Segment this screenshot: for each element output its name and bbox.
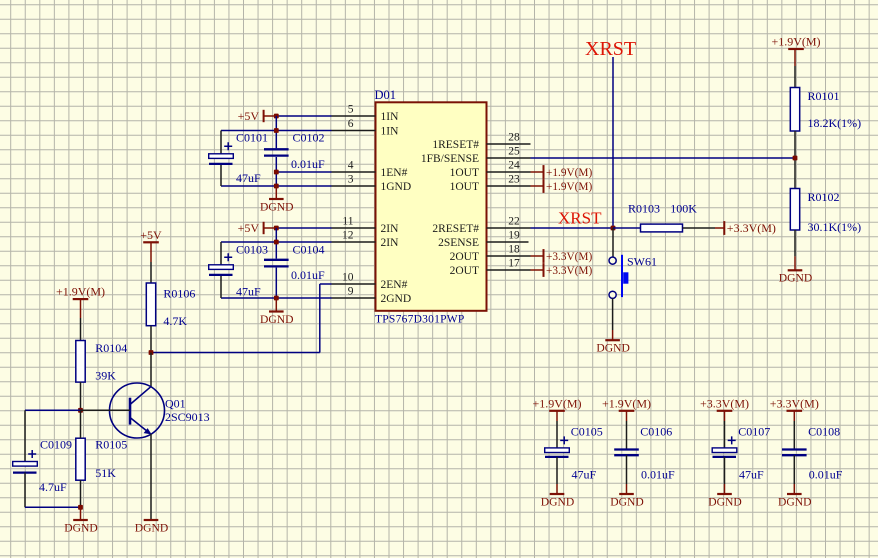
- svg-text:4.7K: 4.7K: [163, 314, 187, 328]
- svg-text:DGND: DGND: [541, 495, 575, 508]
- wire 1FB/SENSE to divider: [531, 157, 796, 159]
- junction bus2/top rail2: [274, 240, 279, 245]
- capacitor C0107 (polarized): [712, 436, 737, 457]
- switch SW61 bottom contact: [609, 291, 616, 298]
- junction at bus/+5V: [274, 114, 279, 119]
- svg-text:2EN#: 2EN#: [381, 279, 408, 291]
- junction bus/bottom rail: [274, 184, 279, 189]
- svg-text:DGND: DGND: [779, 272, 813, 285]
- wire collector node to Q01: [150, 353, 152, 387]
- ground DGND (group 2): [260, 298, 294, 326]
- svg-text:0.01uF: 0.01uF: [809, 467, 843, 481]
- power +3.3V(M) port (C0108): [770, 396, 819, 410]
- svg-text:XRST: XRST: [585, 38, 636, 60]
- wire R0103 to +3.3V: [683, 227, 725, 229]
- pin 11 (2IN) stub: [332, 227, 376, 229]
- svg-text:100K: 100K: [670, 201, 697, 215]
- svg-text:DGND: DGND: [64, 521, 98, 534]
- svg-text:3: 3: [348, 174, 354, 186]
- svg-text:2IN: 2IN: [381, 223, 400, 235]
- capacitor C0108: [782, 450, 807, 456]
- wire C0109 to bottom node: [25, 473, 81, 508]
- ground DGND (group 1): [260, 186, 294, 213]
- svg-text:C0103: C0103: [236, 243, 268, 257]
- svg-text:+5V: +5V: [140, 228, 162, 242]
- power +3.3V(M) port (R0103): [724, 221, 776, 235]
- svg-text:R0106: R0106: [163, 287, 195, 301]
- svg-text:39K: 39K: [95, 369, 116, 383]
- svg-text:1IN: 1IN: [381, 111, 400, 123]
- pin 18 (2OUT) stub: [487, 255, 531, 257]
- svg-text:47uF: 47uF: [739, 467, 764, 481]
- svg-text:TPS767D301PWP: TPS767D301PWP: [375, 314, 465, 326]
- svg-text:2SC9013: 2SC9013: [165, 410, 210, 424]
- svg-text:18: 18: [508, 244, 520, 256]
- pin 19 (2SENSE) stub: [487, 241, 529, 243]
- svg-text:DGND: DGND: [135, 521, 169, 534]
- wire base node to R0105: [80, 410, 82, 438]
- power +1.9V(M) port (divider top): [771, 35, 820, 49]
- capacitor C0105 (polarized): [545, 436, 570, 457]
- svg-text:2SENSE: 2SENSE: [438, 237, 479, 249]
- svg-text:25: 25: [508, 146, 520, 158]
- svg-text:+1.9V(M): +1.9V(M): [771, 35, 820, 49]
- svg-text:2GND: 2GND: [381, 293, 412, 305]
- svg-text:+1.9V(M): +1.9V(M): [546, 167, 592, 179]
- wire pin 17 to +3.3V(M): [531, 269, 544, 271]
- junction bus2/+5V: [274, 226, 279, 231]
- svg-text:1OUT: 1OUT: [450, 181, 479, 193]
- svg-text:D01: D01: [375, 88, 397, 102]
- resistor R0102: [790, 189, 799, 231]
- resistor R0103: [641, 224, 683, 232]
- ground DGND (emitter): [135, 520, 169, 534]
- junction bus/pin4 wire: [274, 170, 279, 175]
- svg-text:9: 9: [348, 286, 354, 298]
- ground DGND (divider): [779, 256, 813, 284]
- wire vertical bus 2 (C0104 leads): [275, 228, 277, 298]
- wire XRST node to R0103: [613, 227, 641, 229]
- wire R0101 to R0102: [794, 131, 796, 189]
- power +5V port (top group): [238, 109, 264, 123]
- svg-text:+1.9V(M): +1.9V(M): [546, 181, 592, 193]
- junction bus2/bottom rail2: [274, 296, 279, 301]
- svg-text:+1.9V(M): +1.9V(M): [56, 285, 105, 299]
- wire pin 4 to bus: [276, 171, 331, 173]
- power +3.3V(M) port (pin 18): [544, 249, 593, 263]
- svg-text:47uF: 47uF: [236, 171, 261, 185]
- junction collector node: [149, 350, 154, 355]
- pin 4 (1EN#) stub: [332, 171, 376, 173]
- svg-text:+3.3V(M): +3.3V(M): [700, 396, 749, 410]
- wire C0108 to ground: [793, 455, 795, 494]
- wire top rail to pin 6: [221, 130, 332, 132]
- wire R0105 to bottom node: [80, 480, 82, 507]
- svg-text:2OUT: 2OUT: [450, 265, 479, 277]
- svg-text:R0104: R0104: [95, 341, 127, 355]
- power +3.3V(M) port (C0107): [700, 396, 749, 410]
- wire R0104 to base node: [80, 382, 82, 410]
- svg-text:Q01: Q01: [165, 397, 186, 411]
- ground DGND (C0106): [610, 494, 644, 508]
- svg-text:19: 19: [508, 230, 520, 242]
- wire +3.3V(M) to C0107: [724, 411, 726, 448]
- svg-text:+3.3V(M): +3.3V(M): [727, 221, 776, 235]
- wire pin 24 to +1.9V(M): [531, 171, 544, 173]
- wire vertical bus (C0102 leads): [275, 116, 277, 186]
- junction bus/top rail: [274, 128, 279, 133]
- wire pin 23 to +1.9V(M): [531, 185, 544, 187]
- svg-text:28: 28: [508, 132, 520, 144]
- svg-text:10: 10: [342, 272, 354, 284]
- svg-text:6: 6: [348, 118, 354, 130]
- junction divider node: [793, 156, 798, 161]
- wire R0102 to ground: [794, 230, 796, 256]
- power +1.9V(M) port (pin 23): [544, 179, 593, 193]
- svg-text:1GND: 1GND: [381, 181, 412, 193]
- pin 5 (1IN) stub: [332, 115, 376, 117]
- svg-text:XRST: XRST: [558, 209, 602, 228]
- ground DGND (C0108): [778, 494, 812, 508]
- wire bus to pin 5: [276, 115, 331, 117]
- power +1.9V(M) port (R0104): [56, 285, 105, 299]
- power +5V port (second group): [238, 221, 264, 235]
- svg-text:C0109: C0109: [40, 438, 72, 452]
- svg-text:11: 11: [342, 216, 353, 228]
- wire top rail 2 to pin 12: [221, 241, 332, 243]
- svg-text:1RESET#: 1RESET#: [432, 139, 479, 151]
- svg-text:22: 22: [508, 216, 520, 228]
- svg-text:R0101: R0101: [808, 89, 840, 103]
- svg-text:DGND: DGND: [778, 495, 812, 508]
- svg-text:1FB/SENSE: 1FB/SENSE: [421, 153, 479, 165]
- pin 9 (2GND) stub: [332, 297, 376, 299]
- svg-text:C0102: C0102: [293, 131, 325, 145]
- wire +5V down to R0106: [150, 242, 152, 283]
- wire XRST vertical: [612, 57, 614, 228]
- svg-text:DGND: DGND: [596, 342, 630, 355]
- wire bottom rail to pin 3: [221, 185, 332, 187]
- resistor R0106: [146, 283, 155, 326]
- transistor Q01 collector arm: [130, 386, 151, 404]
- wire +5V to bus 2: [264, 227, 277, 229]
- svg-text:R0102: R0102: [808, 190, 840, 204]
- pin 24 (1OUT) stub: [487, 171, 531, 173]
- pin 25 (1FB/SENSE) stub: [487, 157, 531, 159]
- op-amp regulator U/D01 body (TPS767D301PWP): [376, 102, 487, 310]
- svg-text:23: 23: [508, 174, 520, 186]
- wire +1.9V down to R0104: [80, 299, 82, 340]
- resistor R0104: [76, 341, 85, 383]
- resistor R0101: [790, 88, 799, 132]
- pin 17 (2OUT) stub: [487, 269, 531, 271]
- wire C0106 to ground: [626, 455, 628, 494]
- ground DGND (C0105): [541, 494, 575, 508]
- svg-text:2OUT: 2OUT: [450, 251, 479, 263]
- pin 22 (2RESET#) stub: [487, 227, 531, 229]
- svg-text:R0105: R0105: [95, 438, 127, 452]
- svg-text:30.1K(1%): 30.1K(1%): [808, 220, 862, 234]
- svg-text:C0105: C0105: [571, 425, 603, 439]
- wire emitter to ground: [150, 434, 152, 520]
- svg-text:0.01uF: 0.01uF: [291, 157, 325, 171]
- svg-text:C0107: C0107: [738, 425, 770, 439]
- svg-text:0.01uF: 0.01uF: [641, 467, 675, 481]
- svg-text:17: 17: [508, 258, 520, 270]
- pin 23 (1OUT) stub: [487, 185, 531, 187]
- wire pin 22 to XRST node: [531, 227, 614, 229]
- svg-text:DGND: DGND: [708, 495, 742, 508]
- wire bus to pin 11: [276, 227, 331, 229]
- wire base node to Q01 base: [81, 409, 131, 411]
- svg-text:51K: 51K: [95, 466, 116, 480]
- capacitor C0103 (polarized): [209, 253, 234, 275]
- svg-text:R0103: R0103: [628, 201, 660, 215]
- power +3.3V(M) port (pin 17): [544, 263, 593, 277]
- transistor Q01 circle: [110, 383, 165, 438]
- transistor Q01 emitter arm: [130, 418, 152, 435]
- resistor R0105: [76, 438, 85, 480]
- svg-text:C0104: C0104: [293, 243, 325, 257]
- pin 6 (1IN) stub: [332, 130, 376, 132]
- capacitor C0106: [614, 450, 639, 456]
- junction base node: [78, 408, 83, 413]
- junction XRST node: [611, 226, 616, 231]
- wire base node to C0109: [25, 410, 81, 461]
- power +1.9V(M) port (C0106): [602, 396, 651, 410]
- ground DGND (C0107): [708, 494, 742, 508]
- wire C0105 to ground: [556, 457, 558, 494]
- wire C0107 to ground: [724, 457, 726, 494]
- pin 10 (2EN#) stub: [332, 283, 376, 285]
- svg-text:+5V: +5V: [238, 109, 260, 123]
- wire XRST node to switch: [612, 228, 614, 257]
- capacitor C0101 (polarized): [209, 142, 234, 164]
- svg-text:SW61: SW61: [627, 255, 657, 269]
- svg-text:4.7uF: 4.7uF: [39, 480, 67, 494]
- pin 3 (1GND) stub: [332, 185, 376, 187]
- svg-text:1IN: 1IN: [381, 126, 400, 138]
- svg-text:2IN: 2IN: [381, 237, 400, 249]
- svg-text:C0106: C0106: [640, 425, 672, 439]
- svg-text:1EN#: 1EN#: [381, 167, 408, 179]
- wire bottom rail 2 to pin 9: [221, 297, 332, 299]
- svg-text:C0108: C0108: [808, 425, 840, 439]
- svg-text:0.01uF: 0.01uF: [291, 268, 325, 282]
- svg-text:DGND: DGND: [260, 200, 294, 213]
- svg-text:C0101: C0101: [236, 131, 268, 145]
- capacitor C0109 (polarized): [13, 450, 38, 473]
- svg-text:DGND: DGND: [260, 313, 294, 326]
- capacitor C0101 leads: [220, 131, 222, 187]
- svg-text:1OUT: 1OUT: [450, 167, 479, 179]
- svg-text:18.2K(1%): 18.2K(1%): [808, 116, 862, 130]
- junction bottom node: [78, 505, 83, 510]
- ground DGND (SW61): [596, 330, 630, 355]
- svg-text:47uF: 47uF: [236, 285, 261, 299]
- svg-text:24: 24: [508, 160, 520, 172]
- svg-text:DGND: DGND: [610, 495, 644, 508]
- transistor Q01 base bar: [129, 398, 132, 425]
- ground DGND (R0105/C0109): [64, 507, 98, 534]
- svg-text:+3.3V(M): +3.3V(M): [770, 396, 819, 410]
- wire pin 18 to +3.3V(M): [531, 255, 544, 257]
- svg-text:+1.9V(M): +1.9V(M): [532, 396, 581, 410]
- svg-text:+3.3V(M): +3.3V(M): [546, 251, 592, 263]
- wire +3.3V(M) to C0108: [793, 411, 795, 450]
- svg-text:2RESET#: 2RESET#: [432, 223, 479, 235]
- capacitor C0103 leads: [220, 242, 222, 298]
- svg-text:+1.9V(M): +1.9V(M): [602, 396, 651, 410]
- svg-text:+3.3V(M): +3.3V(M): [546, 265, 592, 277]
- svg-text:5: 5: [348, 104, 354, 116]
- wire +5V to bus: [264, 115, 277, 117]
- wire +1.9V to R0101: [794, 49, 796, 88]
- power +5V port (R0106): [140, 228, 162, 242]
- power +1.9V(M) port (C0105): [532, 396, 581, 410]
- wire +1.9V(M) to C0105: [556, 411, 558, 448]
- wire switch to ground: [612, 298, 614, 330]
- capacitor C0102: [264, 149, 289, 155]
- switch SW61 actuator: [622, 255, 628, 297]
- pin 28 (1RESET#) stub: [487, 143, 531, 145]
- wire R0106 to collector node: [150, 326, 152, 353]
- svg-text:4: 4: [348, 160, 354, 172]
- switch SW61 top contact: [609, 257, 616, 264]
- wire pin 10 to node (L-shape): [151, 284, 332, 353]
- svg-text:+5V: +5V: [238, 221, 260, 235]
- power +1.9V(M) port (pin 24): [544, 165, 593, 179]
- capacitor C0104: [264, 260, 289, 267]
- pin 12 (2IN) stub: [332, 241, 376, 243]
- wire +1.9V(M) to C0106: [626, 411, 628, 450]
- svg-text:47uF: 47uF: [572, 467, 597, 481]
- svg-text:12: 12: [342, 230, 354, 242]
